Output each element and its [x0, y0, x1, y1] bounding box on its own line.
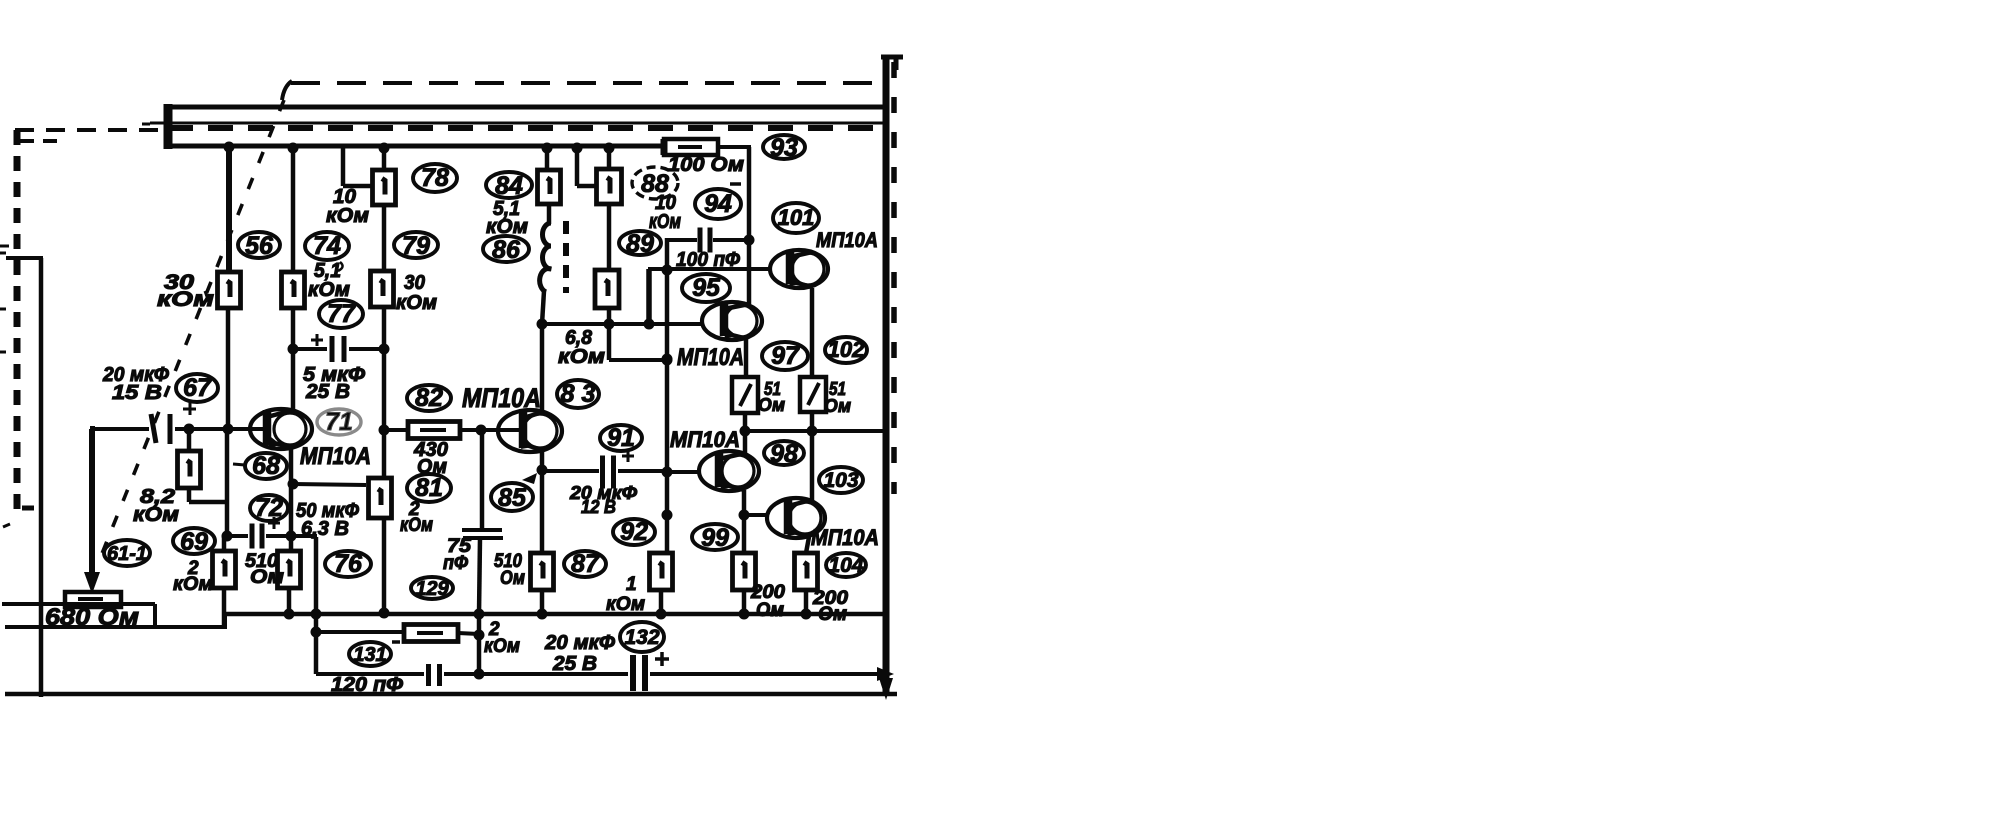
svg-text:81: 81 — [415, 474, 443, 502]
wire left border dashed vertical — [3, 130, 34, 527]
capacitor C77 5мкФ wire — [288, 344, 385, 355]
svg-text:71: 71 — [325, 408, 353, 436]
ref C76 — [325, 550, 371, 578]
svg-text:МП10А: МП10А — [670, 427, 740, 452]
wire R78 jog — [343, 146, 372, 186]
resistor R72 510 Ом — [278, 551, 301, 620]
inductor L86 core dashes — [563, 221, 569, 293]
svg-text:82: 82 — [415, 384, 443, 412]
wire step up to emitter rail — [223, 614, 227, 629]
node junction R56 cap50 — [222, 531, 233, 542]
wire C85 vertical bottom — [474, 538, 485, 620]
ref Q101 — [773, 203, 819, 233]
ref R87 — [564, 550, 606, 578]
capacitor C91 20мкФ wire — [543, 469, 667, 473]
capacitor C132 plates — [633, 655, 645, 691]
label Q101 type — [816, 229, 878, 252]
resistor R84 5,1 кОм — [538, 170, 561, 204]
svg-text:кОм: кОм — [396, 292, 437, 314]
capacitor C131 plates — [429, 664, 440, 686]
wire left border dashed horizontal — [15, 130, 166, 141]
wire R102 bottom — [807, 412, 818, 500]
wire Q98 emitter — [739, 490, 750, 553]
ref R69 — [173, 528, 215, 556]
svg-text:132: 132 — [624, 626, 659, 649]
wire 131 branch right — [458, 633, 479, 634]
ref Q95 — [682, 274, 730, 302]
svg-text:98: 98 — [770, 440, 798, 468]
svg-text:77: 77 — [327, 300, 356, 328]
svg-text:20 мкФ: 20 мкФ — [544, 632, 615, 654]
wire lower-left rail — [5, 625, 225, 629]
resistor R87 510 Ом — [531, 553, 554, 620]
ref L86 — [483, 236, 529, 264]
svg-text:12 В: 12 В — [581, 497, 616, 517]
resistor R74 5,1 кОм — [282, 272, 305, 308]
capacitor C77 polarity plus — [311, 334, 323, 346]
capacitor C67 polarity plus — [183, 403, 196, 415]
svg-text:88: 88 — [641, 170, 669, 198]
transistor Q71 МП10А — [250, 409, 312, 449]
ref R61-1 — [104, 540, 150, 566]
label R74 value — [308, 260, 350, 301]
svg-text:МП10А: МП10А — [462, 383, 541, 413]
capacitor C67 20мкФ wire — [95, 427, 265, 431]
ref Q103 — [819, 467, 863, 493]
wire R78 top — [379, 143, 390, 171]
resistor R102 51 Ом — [800, 377, 826, 412]
svg-text:67: 67 — [183, 374, 212, 402]
wire R89 bottom — [604, 308, 615, 330]
svg-text:МП10А: МП10А — [811, 525, 879, 550]
wire supply bus lower — [165, 144, 664, 149]
capacitor C131 120пФ wire — [316, 672, 479, 676]
svg-text:кОм: кОм — [558, 346, 605, 368]
resistor R89 6,8 кОм — [595, 270, 619, 308]
resistor R82 430 Ом — [408, 422, 460, 439]
node junction base R56 — [223, 424, 234, 435]
label R84 value — [486, 198, 528, 238]
wire R68 bottom jog — [189, 488, 227, 502]
capacitor C94 plates — [700, 228, 710, 253]
resistor R92 1 кОм — [650, 553, 673, 620]
svg-text:97: 97 — [771, 342, 800, 370]
ref C132 — [620, 622, 664, 652]
capacitor C132 polarity plus — [655, 652, 669, 666]
label R93 value — [668, 154, 744, 176]
label R72 value — [245, 551, 284, 588]
resistor R68 8,2 кОм — [178, 451, 201, 488]
wire right border dashes — [891, 62, 897, 494]
ref R74 — [305, 232, 349, 271]
wire R97 top — [744, 339, 749, 377]
wire feedback column — [662, 238, 673, 553]
transistor Q95 МП10А — [702, 302, 762, 340]
svg-text:1: 1 — [626, 574, 637, 595]
node arrow right border bottom — [879, 678, 893, 700]
svg-text:100 Ом: 100 Ом — [668, 154, 744, 176]
resistor R78 10 кОм — [373, 170, 396, 205]
wire C85 vertical top — [480, 430, 485, 528]
transistor Q98 МП10А — [699, 451, 759, 491]
svg-text:кОм: кОм — [326, 205, 369, 227]
ref C94 — [695, 184, 741, 219]
ref R102 — [825, 337, 867, 363]
svg-text:кОм: кОм — [133, 504, 179, 526]
label R69 value — [173, 558, 213, 595]
svg-text:30: 30 — [404, 272, 425, 294]
svg-text:6,3 В: 6,3 В — [301, 518, 349, 540]
label R87 value — [494, 551, 525, 589]
wire R79 down — [379, 307, 390, 478]
svg-text:Ом: Ом — [417, 456, 447, 478]
resistor R79 30 кОм — [371, 271, 394, 307]
ref R84 — [486, 172, 532, 200]
label Q103 type — [811, 525, 879, 550]
wire bottom rail — [5, 692, 897, 697]
label R78 value — [326, 186, 369, 227]
label Q83 type — [462, 383, 541, 413]
ref R129 — [411, 577, 453, 600]
svg-text:86: 86 — [492, 236, 521, 264]
wire R89 lower tie — [609, 324, 673, 366]
transistor Q103 МП10А — [767, 498, 825, 538]
potentiometer R61-1 680 Ом — [65, 592, 121, 607]
wire R81 bottom — [379, 518, 390, 619]
ref R68 — [233, 452, 287, 480]
label Q71 type — [300, 443, 371, 470]
svg-text:99: 99 — [701, 524, 729, 552]
capacitor C76 polarity plus — [268, 517, 280, 529]
wire arrow corner — [90, 426, 95, 432]
wire bus left end cap — [164, 104, 173, 149]
ref C91 — [600, 424, 642, 452]
svg-text:25 В: 25 В — [305, 381, 350, 403]
wire right border vertical — [881, 55, 903, 694]
svg-text:89: 89 — [626, 230, 654, 258]
ref R97 — [762, 342, 808, 370]
wire supply bus middle heavy dashed — [168, 125, 886, 131]
capacitor C94 100пФ wire — [669, 238, 749, 242]
ref R72 — [250, 494, 288, 522]
svg-text:79: 79 — [402, 232, 430, 260]
svg-text:103: 103 — [823, 469, 858, 492]
resistor R97 51 Ом — [732, 377, 758, 413]
wire Q71 collector — [291, 308, 296, 410]
wire R56 column — [224, 142, 235, 538]
label R99 value — [750, 582, 786, 621]
diagonal dashed section divider — [101, 100, 284, 556]
svg-text:95: 95 — [692, 274, 721, 302]
svg-text:Ом: Ом — [500, 568, 525, 589]
svg-text:кОм: кОм — [484, 636, 520, 657]
wire emitter rail — [225, 612, 884, 617]
svg-text:72: 72 — [255, 494, 283, 522]
svg-text:Ом: Ом — [250, 567, 284, 588]
wire tie column — [474, 614, 485, 680]
wire R102 top — [810, 288, 815, 377]
label R81 value — [400, 499, 433, 536]
label C77 value — [303, 364, 365, 403]
capacitor C76 50мкФ plates — [252, 524, 262, 549]
ref R82 — [407, 384, 451, 412]
svg-text:61-1: 61-1 — [107, 543, 147, 565]
svg-text:87: 87 — [571, 550, 600, 578]
wire R84 top — [542, 143, 553, 171]
resistor R69 2 кОм — [213, 536, 236, 627]
resistor R56 30 кОм — [218, 272, 241, 308]
wire Q83 collector — [537, 319, 548, 412]
svg-text:пФ: пФ — [443, 553, 468, 574]
capacitor C67 20мкФ plates — [151, 414, 170, 444]
wire branch column — [311, 537, 322, 674]
wire R81 side feed — [288, 479, 367, 490]
capacitor C91 polarity plus — [622, 450, 634, 462]
capacitor C91 plates — [603, 456, 614, 489]
svg-text:131: 131 — [353, 644, 386, 666]
label R56 value — [157, 271, 215, 311]
label C91 value — [569, 483, 637, 517]
label C85 value — [443, 536, 471, 574]
svg-text:91: 91 — [607, 424, 635, 452]
label Q95 type — [677, 344, 744, 371]
svg-text:МП10А: МП10А — [300, 443, 371, 470]
ref R56 — [238, 232, 280, 260]
ref C131 — [349, 642, 400, 666]
wire Q95 collector column — [744, 147, 755, 304]
wire R74 column — [288, 143, 299, 273]
capacitor C77 plates — [332, 336, 344, 362]
label C67 value — [102, 364, 169, 404]
ref Q71 — [317, 408, 361, 436]
svg-text:кОм: кОм — [308, 279, 350, 301]
ref R78 — [413, 164, 457, 192]
resistor R88 10 кОм — [597, 169, 622, 204]
capacitor C132 20мкФ wire — [479, 672, 878, 676]
svg-text:93: 93 — [770, 134, 798, 162]
label R68 value — [133, 486, 179, 526]
wire Q83 emitter — [537, 450, 548, 553]
ref R79 — [394, 232, 438, 260]
label R104 value — [812, 588, 849, 625]
label R92 value — [606, 574, 645, 615]
svg-text:104: 104 — [828, 554, 863, 577]
wire R88-R89 — [607, 204, 612, 270]
wire 430 row left — [384, 428, 408, 432]
wire R88 jog — [572, 143, 598, 187]
wire potentiometer rail — [2, 602, 155, 606]
label C94 value — [676, 249, 740, 271]
wire Q95 base — [541, 319, 703, 330]
svg-text:101: 101 — [778, 205, 815, 230]
svg-text:кОм: кОм — [173, 574, 213, 595]
ref R89 — [619, 230, 661, 258]
svg-text:МП10А: МП10А — [677, 344, 744, 371]
resistor R99 200 Ом — [733, 553, 756, 620]
wire Q101 base — [648, 267, 771, 271]
label C132 value — [544, 632, 615, 675]
svg-text:92: 92 — [620, 518, 648, 546]
resistor R81 2 кОм — [369, 478, 392, 518]
ref R93 — [763, 134, 805, 162]
svg-text:Ом: Ом — [758, 395, 785, 415]
svg-text:120 пФ: 120 пФ — [331, 674, 403, 696]
wire 131 branch left — [316, 630, 404, 634]
wire R93 right corner — [718, 145, 751, 149]
wire Q98 base — [667, 470, 700, 474]
ref R92 — [613, 518, 655, 546]
wire pot step down — [153, 604, 157, 627]
wire R97 bottom — [740, 413, 751, 453]
ref R81 — [407, 474, 451, 502]
svg-text:102: 102 — [828, 337, 865, 362]
resistor 2 кОм branch — [404, 625, 458, 642]
transistor Q83 МП10А — [498, 410, 562, 452]
wire supply bus middle solid — [142, 123, 886, 124]
inductor L86 winding — [540, 204, 551, 324]
label R89 value — [558, 327, 605, 368]
wire R78-R79 — [382, 205, 387, 271]
wire R68 hang — [184, 424, 195, 452]
label Q98 type — [670, 427, 740, 452]
svg-text:85: 85 — [498, 484, 527, 512]
ref Q83 — [557, 380, 599, 408]
resistor R104 200 Ом — [795, 553, 818, 620]
capacitor C76 50мкФ wire — [227, 534, 317, 538]
wire negative supply bus upper — [165, 105, 886, 110]
svg-text:129: 129 — [415, 578, 449, 600]
svg-text:25 В: 25 В — [552, 653, 597, 675]
wire 430 row right — [460, 425, 521, 436]
wire R88 top — [604, 143, 615, 170]
label branch value — [484, 619, 520, 657]
wire Q103 emitter — [806, 537, 809, 553]
capacitor C85 75пФ plates — [462, 530, 503, 538]
svg-text:Ом: Ом — [756, 600, 784, 621]
wire link 649 — [646, 269, 652, 324]
svg-text:МП10А: МП10А — [816, 229, 878, 252]
svg-text:78: 78 — [421, 164, 449, 192]
svg-text:69: 69 — [180, 528, 208, 556]
ref Q98 — [764, 440, 804, 468]
label C131 value — [331, 674, 403, 696]
wire input stub top — [0, 246, 43, 352]
label R97 value — [758, 379, 785, 415]
svg-text:76: 76 — [334, 550, 363, 578]
node C94 corner — [667, 238, 671, 242]
wire Q71 emitter — [286, 448, 297, 551]
label C76 value — [296, 500, 359, 540]
label R102 value — [824, 379, 851, 416]
svg-text:15 В: 15 В — [112, 382, 162, 404]
transistor Q101 МП10А — [770, 250, 828, 288]
label R82 value — [413, 439, 448, 478]
ref R88 — [632, 167, 678, 199]
svg-text:Ом: Ом — [824, 396, 851, 416]
ref C85 — [491, 473, 537, 512]
wire output tie — [745, 429, 884, 433]
svg-text:кОм: кОм — [400, 515, 433, 536]
svg-text:8 3: 8 3 — [561, 380, 596, 408]
node arrow output right — [877, 667, 894, 681]
resistor R93 100 Ом — [664, 139, 718, 155]
svg-text:84: 84 — [495, 172, 523, 200]
svg-text:94: 94 — [704, 190, 732, 218]
ref C67 — [176, 374, 218, 402]
svg-text:56: 56 — [245, 232, 274, 260]
svg-text:74: 74 — [313, 232, 341, 260]
wire top dashed rail — [282, 81, 881, 100]
svg-text:68: 68 — [252, 452, 280, 480]
ref R99 — [692, 524, 738, 552]
label R79 value — [396, 272, 437, 314]
wire input left vertical — [39, 258, 44, 697]
ref R104 — [826, 553, 866, 577]
wire Q103 base — [744, 513, 768, 517]
wire arrow to potentiometer — [84, 429, 100, 594]
label R88 value — [649, 192, 681, 233]
ref C77 — [319, 300, 363, 328]
label R61-1 value — [45, 604, 139, 631]
